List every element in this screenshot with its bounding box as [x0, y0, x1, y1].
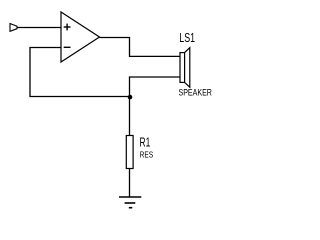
svg-text:RES: RES	[140, 151, 154, 160]
svg-text:SPEAKER: SPEAKER	[179, 87, 212, 98]
svg-text:R1: R1	[140, 135, 151, 149]
svg-text:LS1: LS1	[179, 31, 195, 45]
